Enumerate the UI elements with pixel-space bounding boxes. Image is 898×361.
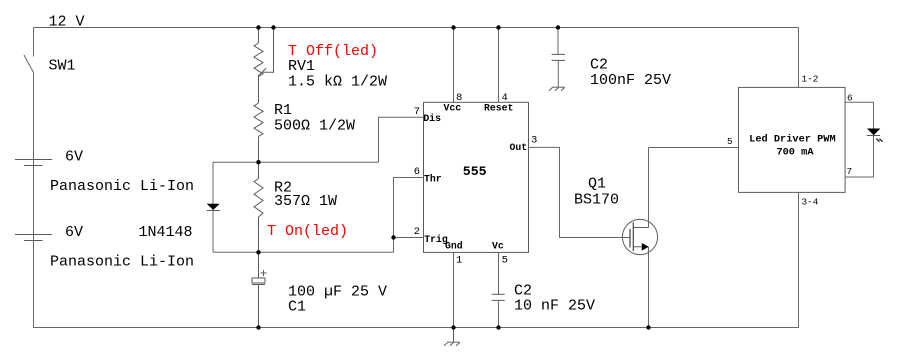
svg-text:C2: C2 bbox=[590, 57, 608, 74]
svg-text:357Ω 1W: 357Ω 1W bbox=[274, 193, 337, 210]
svg-text:Reset: Reset bbox=[484, 103, 513, 114]
svg-text:2: 2 bbox=[414, 226, 420, 238]
svg-text:6V: 6V bbox=[65, 149, 83, 166]
svg-text:BS170: BS170 bbox=[574, 192, 619, 209]
svg-text:7: 7 bbox=[414, 106, 420, 118]
svg-text:7: 7 bbox=[847, 166, 853, 177]
svg-text:1: 1 bbox=[456, 254, 462, 266]
svg-text:100nF 25V: 100nF 25V bbox=[590, 72, 671, 89]
svg-text:500Ω 1/2W: 500Ω 1/2W bbox=[274, 118, 355, 135]
svg-text:Vcc: Vcc bbox=[444, 103, 462, 114]
svg-text:8: 8 bbox=[456, 92, 462, 104]
svg-text:4: 4 bbox=[502, 92, 508, 104]
svg-text:6V: 6V bbox=[65, 224, 83, 241]
svg-text:6: 6 bbox=[847, 93, 853, 104]
svg-text:3-4: 3-4 bbox=[802, 197, 819, 208]
svg-text:Gnd: Gnd bbox=[445, 241, 463, 252]
svg-text:700 mA: 700 mA bbox=[776, 146, 814, 158]
svg-text:Q1: Q1 bbox=[588, 176, 606, 193]
svg-text:SW1: SW1 bbox=[49, 58, 76, 75]
svg-text:6: 6 bbox=[414, 166, 420, 178]
svg-text:RV1: RV1 bbox=[288, 58, 315, 75]
svg-text:10 nF 25V: 10 nF 25V bbox=[514, 298, 595, 315]
svg-text:Vc: Vc bbox=[492, 241, 504, 252]
svg-text:12 V: 12 V bbox=[49, 14, 85, 31]
svg-text:R1: R1 bbox=[274, 102, 292, 119]
svg-text:Panasonic Li-Ion: Panasonic Li-Ion bbox=[50, 178, 194, 195]
svg-text:5: 5 bbox=[727, 136, 733, 147]
svg-text:1.5 kΩ 1/2W: 1.5 kΩ 1/2W bbox=[288, 74, 387, 91]
svg-text:5: 5 bbox=[502, 254, 508, 266]
svg-text:555: 555 bbox=[463, 164, 487, 179]
svg-text:1-2: 1-2 bbox=[802, 74, 819, 85]
svg-text:Thr: Thr bbox=[424, 174, 442, 185]
svg-text:Led Driver PWM: Led Driver PWM bbox=[749, 133, 836, 145]
svg-text:T On(led): T On(led) bbox=[267, 223, 348, 240]
svg-text:Panasonic Li-Ion: Panasonic Li-Ion bbox=[50, 254, 194, 271]
svg-text:C1: C1 bbox=[288, 299, 306, 316]
svg-text:1N4148: 1N4148 bbox=[139, 224, 193, 241]
svg-text:3: 3 bbox=[531, 134, 537, 146]
svg-text:Dis: Dis bbox=[423, 113, 441, 124]
svg-text:Out: Out bbox=[510, 142, 528, 153]
